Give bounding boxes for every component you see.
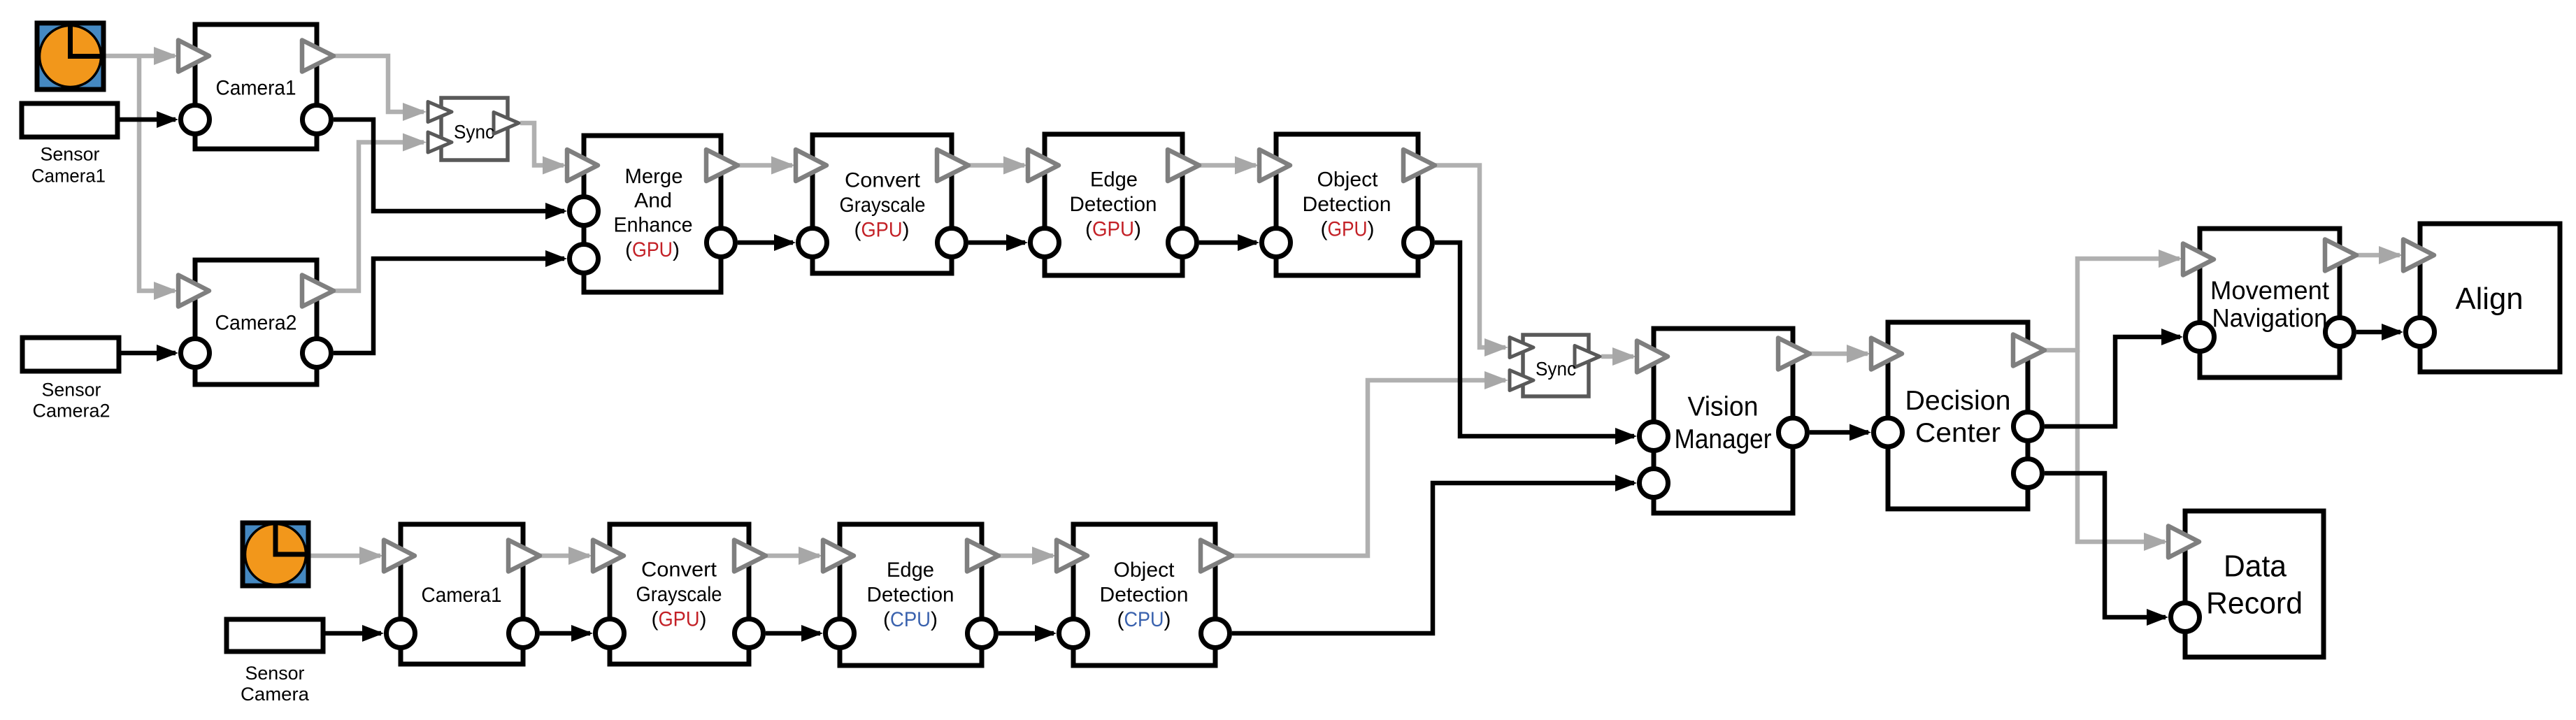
component Camera2 bbox=[178, 260, 334, 384]
wire VisionManager data out to DecisionCenter bbox=[1810, 430, 1868, 435]
svg-text:Record: Record bbox=[2206, 586, 2303, 621]
trigger input port of Camera2 bbox=[178, 275, 209, 307]
wire MovementNavigation trigger out to Align bbox=[2357, 253, 2400, 258]
trigger output port of Decision Center bbox=[2013, 335, 2045, 366]
svg-text:Center: Center bbox=[1915, 418, 2001, 448]
svg-text:Align: Align bbox=[2456, 282, 2524, 316]
trigger input port of Convert Grayscale (GPU) bottom bbox=[593, 540, 624, 572]
component Sync2 bbox=[1510, 335, 1600, 396]
wire bottom EdgeDetectionCPU trigger out to ObjectDetectionCPU bbox=[999, 554, 1053, 559]
trigger output port of Edge Detection (CPU) bbox=[967, 540, 999, 572]
body of Convert Grayscale (GPU) top bbox=[813, 135, 952, 273]
trigger input port of Align bbox=[2403, 240, 2434, 271]
svg-text:(: ( bbox=[883, 608, 890, 631]
data port of Object Detection (GPU) bbox=[1404, 229, 1433, 257]
data port of Align bbox=[2406, 318, 2435, 347]
data port of Convert Grayscale (GPU) bottom bbox=[596, 619, 624, 648]
trigger input port of Movement Navigation bbox=[2183, 244, 2214, 275]
wire Sync2 out to VisionManager trigger bbox=[1601, 354, 1633, 359]
trigger output port of Movement Navigation bbox=[2325, 240, 2356, 271]
body of Object Detection (CPU) bbox=[1073, 524, 1215, 665]
svg-text:Enhance: Enhance bbox=[614, 214, 693, 237]
trigger input port of Vision Manager bbox=[1637, 341, 1668, 373]
trigger input port of Decision Center bbox=[1871, 338, 1902, 370]
svg-text:): ) bbox=[700, 608, 707, 631]
wire MergeAndEnhance trigger out to ConvertGrayscaleGPU bbox=[738, 163, 792, 168]
component Data Record bbox=[2168, 511, 2324, 657]
svg-text:Camera1: Camera1 bbox=[422, 584, 502, 607]
trigger output port of Convert Grayscale (GPU) top bbox=[937, 150, 968, 181]
wire SensorCamera1 to Camera1 data-in bbox=[117, 117, 176, 122]
wire DecisionCenter trigger out branch to MovementNavigation bbox=[2045, 259, 2180, 350]
wire ObjectDetectionCPU trigger out to Sync2 lower input bbox=[1233, 380, 1505, 556]
trigger output port of Camera1 (bottom) bbox=[508, 540, 540, 572]
trigger input port of Edge Detection (GPU) bbox=[1028, 150, 1059, 181]
svg-text:Sensor: Sensor bbox=[245, 663, 305, 684]
body of Edge Detection (GPU) bbox=[1045, 134, 1182, 275]
wire clock1 branch to Camera2 trigger bbox=[139, 56, 175, 291]
component Object Detection (CPU) bbox=[1057, 524, 1232, 665]
data port of Data Record bbox=[2171, 603, 2200, 632]
svg-text:Sensor: Sensor bbox=[42, 380, 101, 401]
body of Sync1 bbox=[441, 98, 508, 160]
wire DecisionCenter trigger branch to DataRecord bbox=[2077, 350, 2165, 542]
data port of Camera1 (top) bbox=[181, 106, 210, 134]
component Movement Navigation bbox=[2183, 229, 2356, 377]
data port of Edge Detection (CPU) bbox=[826, 619, 854, 648]
wire Merge data out to ConvertGPU data-in bbox=[738, 240, 793, 245]
component Camera1 (bottom) bbox=[384, 524, 540, 664]
svg-text:Data: Data bbox=[2224, 549, 2287, 583]
body of Merge And Enhance (GPU) bbox=[584, 136, 721, 292]
data port of Movement Navigation bbox=[2186, 323, 2214, 352]
body of Camera1 (bottom) bbox=[401, 524, 523, 664]
trigger input port of Object Detection (GPU) bbox=[1259, 150, 1290, 181]
svg-text:Camera2: Camera2 bbox=[33, 401, 110, 422]
svg-text:Camera1: Camera1 bbox=[31, 166, 106, 187]
trigger input port of Camera1 (bottom) bbox=[384, 540, 415, 572]
body of Sync2 bbox=[1523, 335, 1589, 396]
trigger input port of Merge And Enhance (GPU) bbox=[567, 150, 598, 181]
svg-text:Detection: Detection bbox=[1303, 193, 1391, 216]
svg-text:CPU: CPU bbox=[1124, 608, 1164, 631]
wire ObjectCPU data out to VisionManager lower data-in bbox=[1232, 483, 1634, 633]
svg-text:(: ( bbox=[854, 219, 861, 242]
wire EdgeDetectionGPU trigger out to ObjectDetectionGPU bbox=[1200, 163, 1256, 168]
wire DecisionCenter upper data out to MovementNavigation bbox=[2045, 337, 2180, 426]
wire ObjectDetectionGPU trigger out to Sync2 upper input bbox=[1436, 166, 1505, 348]
component Align bbox=[2403, 224, 2560, 372]
svg-text:Sync: Sync bbox=[1536, 358, 1576, 380]
wire ConvertGPU data out to EdgeGPU data-in bbox=[968, 240, 1025, 245]
svg-text:And: And bbox=[634, 189, 672, 212]
trigger output port of Camera1 (top) bbox=[302, 41, 334, 72]
data port of Camera1 (bottom) bbox=[387, 619, 415, 648]
svg-text:Vision: Vision bbox=[1688, 391, 1759, 422]
svg-text:Navigation: Navigation bbox=[2212, 304, 2328, 333]
trigger input port of Camera1 (top) bbox=[178, 41, 209, 72]
trigger output port of Object Detection (CPU) bbox=[1201, 540, 1232, 572]
trigger output port of Object Detection (GPU) bbox=[1403, 150, 1435, 181]
svg-text:): ) bbox=[1134, 218, 1141, 241]
svg-text:Detection: Detection bbox=[1100, 584, 1189, 607]
body of Camera2 bbox=[195, 260, 317, 384]
trigger input port of Sync1 bbox=[428, 132, 452, 152]
data port of Edge Detection (CPU) bbox=[968, 619, 996, 648]
svg-text:Grayscale: Grayscale bbox=[840, 194, 926, 217]
data port of Object Detection (CPU) bbox=[1059, 619, 1088, 648]
wire Sync1 out to MergeAndEnhance trigger bbox=[520, 123, 564, 166]
svg-text:Camera1: Camera1 bbox=[216, 77, 296, 100]
component Sync1 bbox=[428, 98, 519, 160]
wire SensorCamera to bottom Camera1 data-in bbox=[323, 631, 381, 636]
data port of Camera2 bbox=[181, 339, 210, 368]
trigger input port of Data Record bbox=[2168, 526, 2199, 558]
svg-text:): ) bbox=[1368, 218, 1375, 241]
sensor Sensor Camera (bottom) bbox=[227, 619, 323, 705]
svg-text:Detection: Detection bbox=[1070, 193, 1157, 216]
component Camera1 (top) bbox=[178, 24, 334, 149]
trigger output port of Edge Detection (GPU) bbox=[1168, 150, 1199, 181]
wire clock2 to bottom Camera1 trigger bbox=[297, 554, 380, 559]
svg-text:): ) bbox=[673, 238, 680, 261]
wire VisionManager trigger out to DecisionCenter bbox=[1810, 352, 1868, 357]
body of Object Detection (GPU) bbox=[1276, 134, 1418, 275]
svg-text:GPU: GPU bbox=[1328, 218, 1368, 241]
wire Camera1 data out to Merge upper data-in bbox=[334, 120, 564, 211]
wire bottom Camera1 trigger out to ConvertGrayscale bbox=[541, 554, 589, 559]
data port of Merge And Enhance (GPU) bbox=[570, 245, 599, 273]
trigger input port of Sync2 bbox=[1510, 370, 1533, 391]
trigger output port of Vision Manager bbox=[1778, 338, 1810, 370]
svg-text:(: ( bbox=[625, 238, 632, 261]
svg-text:Grayscale: Grayscale bbox=[636, 583, 722, 606]
data port of Object Detection (GPU) bbox=[1262, 229, 1291, 257]
data port of Vision Manager bbox=[1779, 418, 1808, 447]
svg-text:Decision: Decision bbox=[1905, 386, 2011, 416]
data port of Convert Grayscale (GPU) top bbox=[938, 229, 966, 257]
body of Camera1 (top) bbox=[195, 24, 317, 149]
svg-text:CPU: CPU bbox=[890, 608, 931, 631]
svg-text:GPU: GPU bbox=[1092, 218, 1134, 241]
body of Convert Grayscale (GPU) bottom bbox=[610, 524, 749, 664]
wire DecisionCenter lower data out to DataRecord bbox=[2045, 473, 2166, 617]
wire MovementNavigation data out to Align bbox=[2356, 330, 2400, 335]
data port of Vision Manager bbox=[1640, 469, 1668, 498]
data port of Decision Center bbox=[1874, 418, 1903, 447]
body of Edge Detection (CPU) bbox=[840, 524, 982, 665]
trigger output port of Sync1 bbox=[494, 113, 519, 134]
data port of Decision Center bbox=[2014, 412, 2042, 441]
svg-text:Edge: Edge bbox=[1090, 168, 1138, 192]
svg-text:(: ( bbox=[1085, 218, 1092, 241]
wire bottom Camera1 data out to ConvertGrayscale bbox=[540, 631, 590, 636]
body of Decision Center bbox=[1888, 322, 2028, 509]
svg-text:(: ( bbox=[1117, 608, 1124, 631]
wire Camera1 trigger out to Sync1 upper input bbox=[334, 56, 424, 112]
svg-text:(: ( bbox=[652, 608, 659, 631]
svg-text:Sync: Sync bbox=[454, 121, 494, 143]
trigger input port of Sync2 bbox=[1510, 338, 1533, 358]
data port of Edge Detection (GPU) bbox=[1168, 229, 1197, 257]
body of Vision Manager bbox=[1654, 329, 1793, 513]
svg-text:): ) bbox=[931, 608, 938, 631]
body of Movement Navigation bbox=[2200, 229, 2340, 377]
svg-text:Sensor: Sensor bbox=[41, 143, 100, 164]
svg-text:Manager: Manager bbox=[1675, 424, 1772, 454]
svg-text:Convert: Convert bbox=[641, 559, 717, 582]
data port of Merge And Enhance (GPU) bbox=[707, 229, 736, 257]
clock icon clock1 (top) bbox=[37, 23, 103, 89]
wire ConvertGrayscaleGPU trigger out to EdgeDetectionGPU bbox=[969, 163, 1024, 168]
component Convert Grayscale (GPU) top bbox=[796, 135, 968, 273]
wire Camera2 data out to Merge lower data-in bbox=[334, 259, 564, 353]
data port of Movement Navigation bbox=[2326, 318, 2354, 347]
data port of Edge Detection (GPU) bbox=[1031, 229, 1059, 257]
svg-text:GPU: GPU bbox=[659, 608, 700, 631]
svg-text:Convert: Convert bbox=[845, 169, 921, 192]
svg-text:Edge: Edge bbox=[887, 559, 934, 582]
data port of Vision Manager bbox=[1640, 422, 1668, 451]
wire bottom ConvertGrayscale trigger out to EdgeDetectionCPU bbox=[766, 554, 820, 559]
component Edge Detection (GPU) bbox=[1028, 134, 1199, 275]
svg-text:(: ( bbox=[1321, 218, 1328, 241]
data port of Object Detection (CPU) bbox=[1201, 619, 1230, 648]
svg-text:Camera: Camera bbox=[241, 684, 310, 705]
data port of Camera1 (bottom) bbox=[509, 619, 538, 648]
svg-text:Object: Object bbox=[1114, 559, 1175, 582]
trigger output port of Camera2 bbox=[302, 275, 334, 307]
svg-text:Merge: Merge bbox=[625, 165, 683, 188]
wire ObjectGPU data out to VisionManager upper data-in bbox=[1435, 243, 1634, 436]
svg-text:Object: Object bbox=[1317, 168, 1379, 191]
body of Align bbox=[2420, 224, 2560, 372]
svg-text:GPU: GPU bbox=[632, 238, 673, 261]
svg-text:): ) bbox=[1164, 608, 1171, 631]
data port of Camera2 bbox=[303, 339, 331, 368]
component Vision Manager bbox=[1637, 329, 1810, 513]
svg-text:Movement: Movement bbox=[2210, 276, 2330, 305]
wire bottom ConvertGrayscale data out to EdgeCPU bbox=[766, 631, 820, 636]
trigger input port of Edge Detection (CPU) bbox=[823, 540, 854, 572]
body of Data Record bbox=[2185, 511, 2324, 657]
trigger input port of Convert Grayscale (GPU) top bbox=[796, 150, 827, 181]
sensor Sensor Camera1 bbox=[22, 103, 117, 187]
data port of Camera1 (top) bbox=[303, 106, 331, 134]
trigger input port of Sync1 bbox=[428, 102, 452, 122]
wire EdgeGPU data out to ObjectGPU data-in bbox=[1199, 240, 1257, 245]
sensor Sensor Camera2 bbox=[22, 338, 119, 422]
wire clock1 to Camera1 trigger bbox=[91, 54, 175, 59]
trigger output port of Convert Grayscale (GPU) bottom bbox=[734, 540, 766, 572]
data port of Decision Center bbox=[2014, 459, 2042, 488]
svg-text:): ) bbox=[903, 219, 910, 242]
trigger output port of Sync2 bbox=[1575, 346, 1600, 368]
component Edge Detection (CPU) bbox=[823, 524, 999, 665]
svg-text:Detection: Detection bbox=[867, 584, 954, 607]
trigger output port of Merge And Enhance (GPU) bbox=[706, 150, 738, 181]
clock icon clock2 (bottom) bbox=[243, 523, 308, 586]
component Convert Grayscale (GPU) bottom bbox=[593, 524, 766, 664]
wire bottom EdgeCPU data out to ObjectCPU bbox=[999, 631, 1054, 636]
wire SensorCamera2 to Camera2 data-in bbox=[119, 351, 176, 356]
wire Camera2 trigger out to Sync1 lower input bbox=[334, 143, 424, 291]
data port of Convert Grayscale (GPU) top bbox=[799, 229, 827, 257]
component Object Detection (GPU) bbox=[1259, 134, 1435, 275]
data port of Convert Grayscale (GPU) bottom bbox=[735, 619, 764, 648]
svg-text:GPU: GPU bbox=[861, 219, 903, 242]
svg-text:Camera2: Camera2 bbox=[215, 312, 297, 335]
component Decision Center bbox=[1871, 322, 2045, 509]
component Merge And Enhance (GPU) bbox=[567, 136, 738, 292]
trigger input port of Object Detection (CPU) bbox=[1057, 540, 1087, 572]
data port of Merge And Enhance (GPU) bbox=[570, 197, 599, 226]
